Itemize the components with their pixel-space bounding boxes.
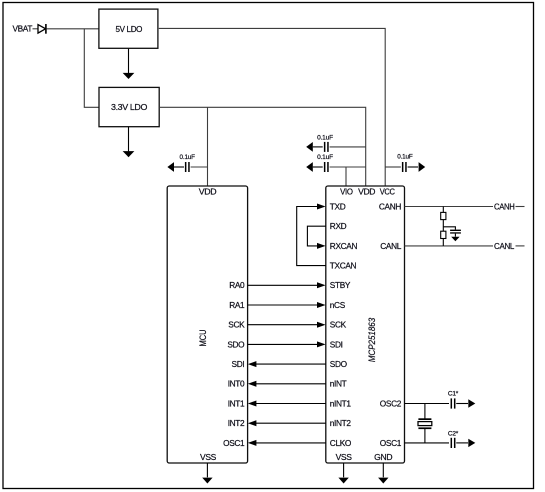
wire INT2 to nINT2 xyxy=(248,420,326,426)
wire node A branch down to 3.3V LDO input xyxy=(84,29,99,108)
ground below MCP VSS xyxy=(338,463,348,484)
wire CANL stub xyxy=(516,245,525,247)
MCP pin OSC2 xyxy=(380,398,402,408)
MCU pin INT2 xyxy=(228,418,245,428)
wire SDI to SDO xyxy=(248,361,326,367)
MCP pin nCS xyxy=(330,300,346,310)
svg-text:C2*: C2* xyxy=(448,431,459,438)
svg-text:RA1: RA1 xyxy=(229,300,245,310)
svg-text:RXD: RXD xyxy=(330,221,347,231)
MCP pin OSC1 xyxy=(380,438,402,448)
ground arrow right of C2 xyxy=(468,439,475,447)
diode D1 xyxy=(38,24,46,34)
ground arrow left of VDD cap xyxy=(306,142,313,152)
net VBAT xyxy=(13,24,33,34)
svg-text:OSC1: OSC1 xyxy=(223,438,245,448)
svg-text:GND: GND xyxy=(374,452,392,462)
svg-text:VCC: VCC xyxy=(380,186,395,196)
MCP pin VSS xyxy=(336,452,353,462)
svg-text:nCS: nCS xyxy=(330,300,346,310)
svg-text:INT1: INT1 xyxy=(228,398,245,408)
wire VBAT to diode anode xyxy=(33,28,39,30)
wire VIO stub down to pin xyxy=(345,167,347,186)
MCU pin SDO xyxy=(227,339,245,349)
svg-text:MCU: MCU xyxy=(198,330,208,347)
svg-text:nINT: nINT xyxy=(330,379,347,389)
MCU pin VDD xyxy=(199,186,217,196)
svg-text:TXCAN: TXCAN xyxy=(330,261,357,271)
wire INT1 to nINT1 xyxy=(248,401,326,407)
MCP pin nINT xyxy=(330,379,347,389)
svg-text:3.3V LDO: 3.3V LDO xyxy=(111,102,148,112)
MCP pin nINT2 xyxy=(330,418,352,428)
power flow arrow below 3.3V LDO xyxy=(123,127,135,158)
svg-text:TXD: TXD xyxy=(330,201,346,211)
ground arrow left of MCU cap xyxy=(167,162,174,172)
MCP pin RXD xyxy=(330,221,347,231)
wire RXD to RXCAN loopback xyxy=(307,226,325,249)
net label CANH xyxy=(494,201,515,211)
svg-text:VBAT: VBAT xyxy=(13,24,33,34)
ground arrow right of VCC cap xyxy=(419,162,426,172)
MCP pin SDI xyxy=(330,339,343,349)
MCP pin VIO xyxy=(340,186,353,196)
MCU pin OSC1 xyxy=(223,438,245,448)
MCU pin SDI xyxy=(232,359,245,369)
svg-text:0.1uF: 0.1uF xyxy=(397,154,413,161)
MCP pin TXCAN xyxy=(330,261,357,271)
wire OSC1 xyxy=(405,442,450,444)
wire crystal branch xyxy=(424,404,426,443)
svg-text:VSS: VSS xyxy=(200,452,217,462)
svg-text:INT0: INT0 xyxy=(228,379,245,389)
MCU pin RA0 xyxy=(229,280,245,290)
svg-text:nINT2: nINT2 xyxy=(330,418,352,428)
crystal Y1 xyxy=(418,418,432,429)
svg-text:RXCAN: RXCAN xyxy=(330,241,358,251)
regulator 5V LDO xyxy=(99,9,158,48)
wire INT0 to nINT xyxy=(248,381,326,387)
MCP pin RXCAN xyxy=(330,241,358,251)
MCP pin CANH xyxy=(379,201,401,211)
svg-text:SDI: SDI xyxy=(330,339,343,349)
capacitor C2* xyxy=(448,431,468,448)
MCU pin RA1 xyxy=(229,300,245,310)
MCP pin SDO xyxy=(330,359,348,369)
svg-text:VSS: VSS xyxy=(336,452,353,462)
wire CANH stub xyxy=(516,206,525,208)
svg-text:0.1uF: 0.1uF xyxy=(317,134,333,141)
svg-text:RA0: RA0 xyxy=(229,280,245,290)
MCU pin VSS xyxy=(200,452,217,462)
svg-text:nINT1: nINT1 xyxy=(330,398,352,408)
ground below MCU VSS xyxy=(202,463,212,484)
svg-text:VIO: VIO xyxy=(340,186,353,196)
svg-text:CANL: CANL xyxy=(380,241,401,251)
svg-text:INT2: INT2 xyxy=(228,418,245,428)
wire 5V LDO output to VCC rail (top horizontal) xyxy=(159,28,385,186)
wire branch to MCU VDD pin xyxy=(207,107,209,186)
svg-text:C1*: C1* xyxy=(448,390,459,397)
net label CANL xyxy=(494,241,515,251)
svg-text:0.1uF: 0.1uF xyxy=(317,154,333,161)
svg-text:SDO: SDO xyxy=(330,359,348,369)
svg-text:CANH: CANH xyxy=(494,201,515,211)
MCP pin GND xyxy=(374,452,392,462)
MCP pin STBY xyxy=(330,280,351,290)
wire RA0 to STBY xyxy=(248,282,326,288)
ground arrow left of VIO cap xyxy=(306,162,313,172)
svg-text:0.1uF: 0.1uF xyxy=(180,154,196,161)
svg-text:SCK: SCK xyxy=(228,320,245,330)
ground arrow right of C1 xyxy=(468,399,475,407)
MCP pin CLKO xyxy=(330,438,352,448)
svg-text:OSC1: OSC1 xyxy=(380,438,402,448)
MCU pin INT0 xyxy=(228,379,245,389)
svg-text:STBY: STBY xyxy=(330,280,351,290)
MCP pin VCC xyxy=(380,186,395,196)
svg-text:CLKO: CLKO xyxy=(330,438,352,448)
MCU U1 xyxy=(167,186,247,463)
MCP pin VDD xyxy=(358,186,375,196)
MCP pin SCK xyxy=(330,320,347,330)
wire SCK to SCK xyxy=(248,322,326,328)
wire SDO to SDI xyxy=(248,341,326,347)
svg-text:VDD: VDD xyxy=(358,186,375,196)
MCP pin CANL xyxy=(380,241,401,251)
wire diode cathode to 5V LDO input, junction at node A xyxy=(47,28,99,30)
svg-text:SDI: SDI xyxy=(232,359,245,369)
svg-text:VDD: VDD xyxy=(199,186,217,196)
ground below MCP GND xyxy=(378,463,388,484)
ground symbol below CT xyxy=(451,234,459,242)
capacitor 0.1uF at MCU VDD xyxy=(174,154,208,172)
wire RA1 to nCS xyxy=(248,302,326,308)
wire OSC2 xyxy=(405,403,450,405)
svg-text:OSC2: OSC2 xyxy=(380,398,402,408)
power flow arrow below 5V LDO xyxy=(123,49,135,79)
resistor RT1 xyxy=(441,212,446,219)
capacitor 0.1uF on VIO xyxy=(313,154,366,172)
transceiver U2 MCP251863 xyxy=(326,186,405,463)
svg-text:CANH: CANH xyxy=(379,201,401,211)
svg-text:CANL: CANL xyxy=(494,241,515,251)
MCP pin TXD xyxy=(330,201,346,211)
capacitor C1* xyxy=(448,390,468,408)
regulator 3.3V LDO xyxy=(99,87,159,126)
resistor RT2 xyxy=(441,231,446,238)
wire TXCAN to TXD loopback xyxy=(297,204,326,266)
wire CANL xyxy=(405,245,494,247)
wire termination center tap xyxy=(443,227,455,230)
svg-text:SDO: SDO xyxy=(227,339,245,349)
MCU pin INT1 xyxy=(228,398,245,408)
capacitor 0.1uF on VCC xyxy=(385,154,418,172)
svg-text:MCP251863: MCP251863 xyxy=(367,318,377,362)
MCU pin SCK xyxy=(228,320,245,330)
wire 3.3V LDO output / VDD rail xyxy=(159,107,366,186)
svg-text:SCK: SCK xyxy=(330,320,347,330)
wire termination vertical xyxy=(442,207,444,246)
capacitor 0.1uF on VDD rail xyxy=(313,134,366,152)
MCP pin nINT1 xyxy=(330,398,352,408)
wire CANH xyxy=(405,206,494,208)
wire OSC1 to CLKO xyxy=(248,440,326,446)
capacitor CT split termination xyxy=(450,230,461,234)
svg-text:5V LDO: 5V LDO xyxy=(115,24,143,34)
